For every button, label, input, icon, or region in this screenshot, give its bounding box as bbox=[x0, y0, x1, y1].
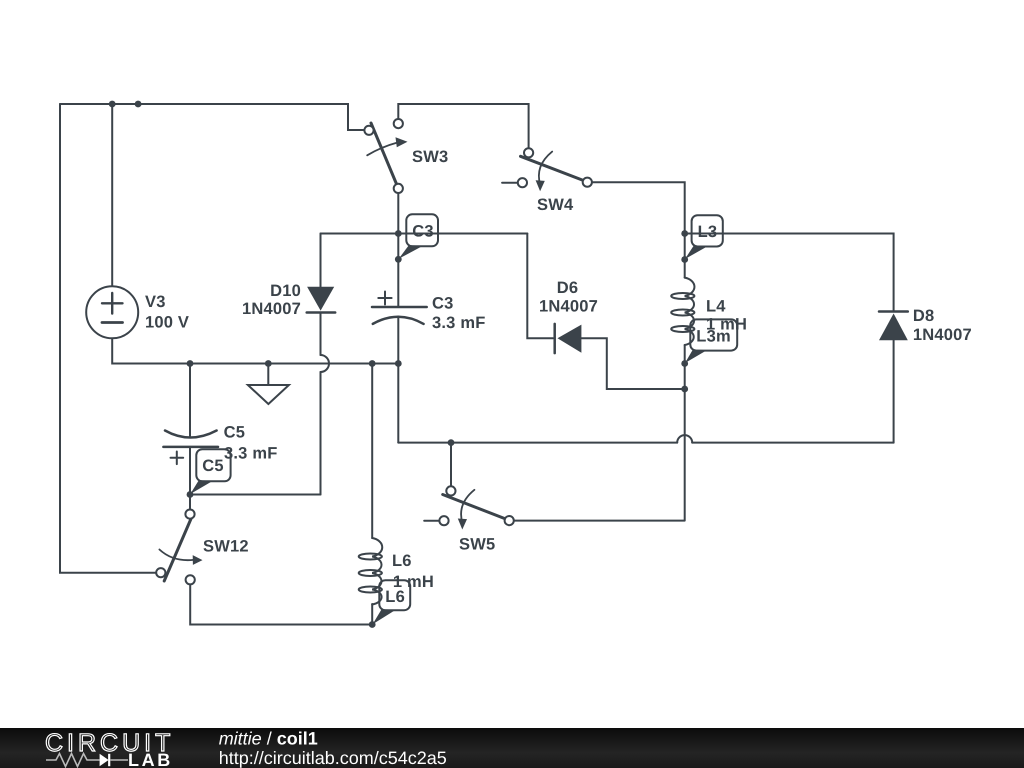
svg-text:1N4007: 1N4007 bbox=[242, 300, 301, 318]
wire SW12 feed bbox=[189, 495, 191, 510]
svg-text:D10: D10 bbox=[270, 282, 301, 300]
node dot C3 top bbox=[395, 230, 402, 237]
wire SW12 bottom to L6 bbox=[190, 585, 372, 625]
svg-text:mittie / coil1: mittie / coil1 bbox=[219, 729, 318, 749]
wire V3 bottom rail bbox=[112, 338, 398, 363]
wire top rail bbox=[60, 104, 364, 130]
wire V3 top bbox=[111, 104, 113, 286]
svg-text:3.3 mF: 3.3 mF bbox=[432, 314, 485, 332]
svg-text:C5: C5 bbox=[202, 457, 224, 475]
svg-text:C5: C5 bbox=[224, 424, 246, 442]
svg-text:L4: L4 bbox=[706, 298, 726, 316]
wire D6 output bbox=[581, 338, 684, 389]
wire D10 column with hop over rail bbox=[320, 234, 322, 495]
node dot C5 bottom bbox=[187, 491, 194, 498]
node dot ground bbox=[265, 360, 272, 367]
node dot L3 tail anchor bbox=[681, 256, 688, 263]
node dot C5 top bbox=[187, 360, 194, 367]
node dot D6 junction bbox=[681, 386, 688, 393]
wire L4 bottom column bbox=[514, 345, 685, 521]
node dot top rail second bbox=[135, 101, 142, 108]
svg-text:SW4: SW4 bbox=[537, 196, 574, 214]
wire SW3 common down bbox=[397, 193, 399, 233]
svg-text:L6: L6 bbox=[392, 552, 412, 570]
node dot L3m tail anchor bbox=[681, 360, 688, 367]
diode D10 bbox=[307, 287, 336, 313]
svg-text:V3: V3 bbox=[145, 293, 166, 311]
wire D8 column bbox=[685, 234, 894, 443]
switch SW3 bbox=[364, 119, 407, 193]
wire L6 bottom bbox=[371, 604, 373, 625]
capacitor C3 bbox=[372, 292, 427, 324]
wire SW4 left stub bbox=[502, 182, 517, 184]
svg-text:L3m: L3m bbox=[696, 327, 731, 345]
switch SW12 bbox=[156, 509, 202, 584]
node dot L3 row bbox=[681, 230, 688, 237]
wire SW3 throw B to SW4 bbox=[398, 104, 528, 148]
svg-text:http://circuitlab.com/c54c2a5: http://circuitlab.com/c54c2a5 bbox=[219, 748, 447, 768]
svg-text:1N4007: 1N4007 bbox=[913, 326, 972, 344]
wire C3 junction down to bottom row bbox=[397, 364, 399, 443]
wire left rail bbox=[60, 104, 156, 573]
svg-text:L6: L6 bbox=[385, 588, 405, 606]
wire C5 top bbox=[189, 364, 191, 437]
svg-text:SW3: SW3 bbox=[412, 148, 448, 166]
logo resistor-diode glyph bbox=[46, 754, 128, 767]
inductor L4 bbox=[671, 278, 694, 345]
ground bbox=[248, 367, 289, 404]
node bubble L3 bbox=[685, 215, 723, 259]
svg-text:SW5: SW5 bbox=[459, 536, 495, 554]
inductor L6 bbox=[359, 538, 383, 605]
node bubble L6 bbox=[373, 580, 411, 624]
svg-text:3.3 mF: 3.3 mF bbox=[224, 445, 277, 463]
svg-text:D6: D6 bbox=[557, 279, 579, 297]
node dot top V3 bbox=[109, 101, 116, 108]
svg-text:C3: C3 bbox=[412, 222, 434, 240]
footer bar bbox=[0, 728, 1024, 768]
capacitor C5 bbox=[163, 431, 218, 465]
node bubble L3m bbox=[685, 319, 737, 363]
wire middle row bbox=[321, 233, 528, 235]
hop vertical-over-horizontal bbox=[321, 355, 330, 372]
wire D6 input from middle row bbox=[527, 234, 553, 339]
node dot L6 top bbox=[369, 360, 376, 367]
wire bottom row with hop bbox=[398, 442, 893, 444]
wire C5 bottom bbox=[190, 447, 321, 495]
wire C3 column bbox=[397, 234, 399, 364]
svg-text:L3: L3 bbox=[698, 223, 718, 241]
switch SW4 bbox=[518, 148, 592, 191]
diode D8 bbox=[879, 312, 908, 341]
svg-text:D8: D8 bbox=[913, 307, 935, 325]
node dot SW5 feed bbox=[448, 439, 455, 446]
node bubble C3 bbox=[399, 214, 438, 258]
node dot L6 bottom bbox=[369, 621, 376, 628]
hop horizontal-over-vertical bbox=[677, 435, 692, 442]
wire L4 top bbox=[684, 234, 686, 278]
voltage source V3 bbox=[86, 286, 138, 338]
wire SW5 feed bbox=[450, 443, 452, 487]
svg-text:100 V: 100 V bbox=[145, 314, 189, 332]
svg-text:1N4007: 1N4007 bbox=[539, 298, 598, 316]
svg-text:SW12: SW12 bbox=[203, 538, 249, 556]
node dot C3 tail anchor bbox=[395, 256, 402, 263]
node bubble C5 bbox=[190, 449, 230, 494]
node dot C3 bottom bbox=[395, 360, 402, 367]
svg-text:LAB: LAB bbox=[128, 750, 173, 768]
wire SW4 output bbox=[592, 182, 685, 233]
wire SW5 left stub bbox=[424, 520, 439, 522]
svg-text:C3: C3 bbox=[432, 295, 454, 313]
diode D6 bbox=[555, 324, 582, 353]
switch SW5 bbox=[439, 486, 513, 529]
wire L6 top bbox=[371, 364, 373, 539]
